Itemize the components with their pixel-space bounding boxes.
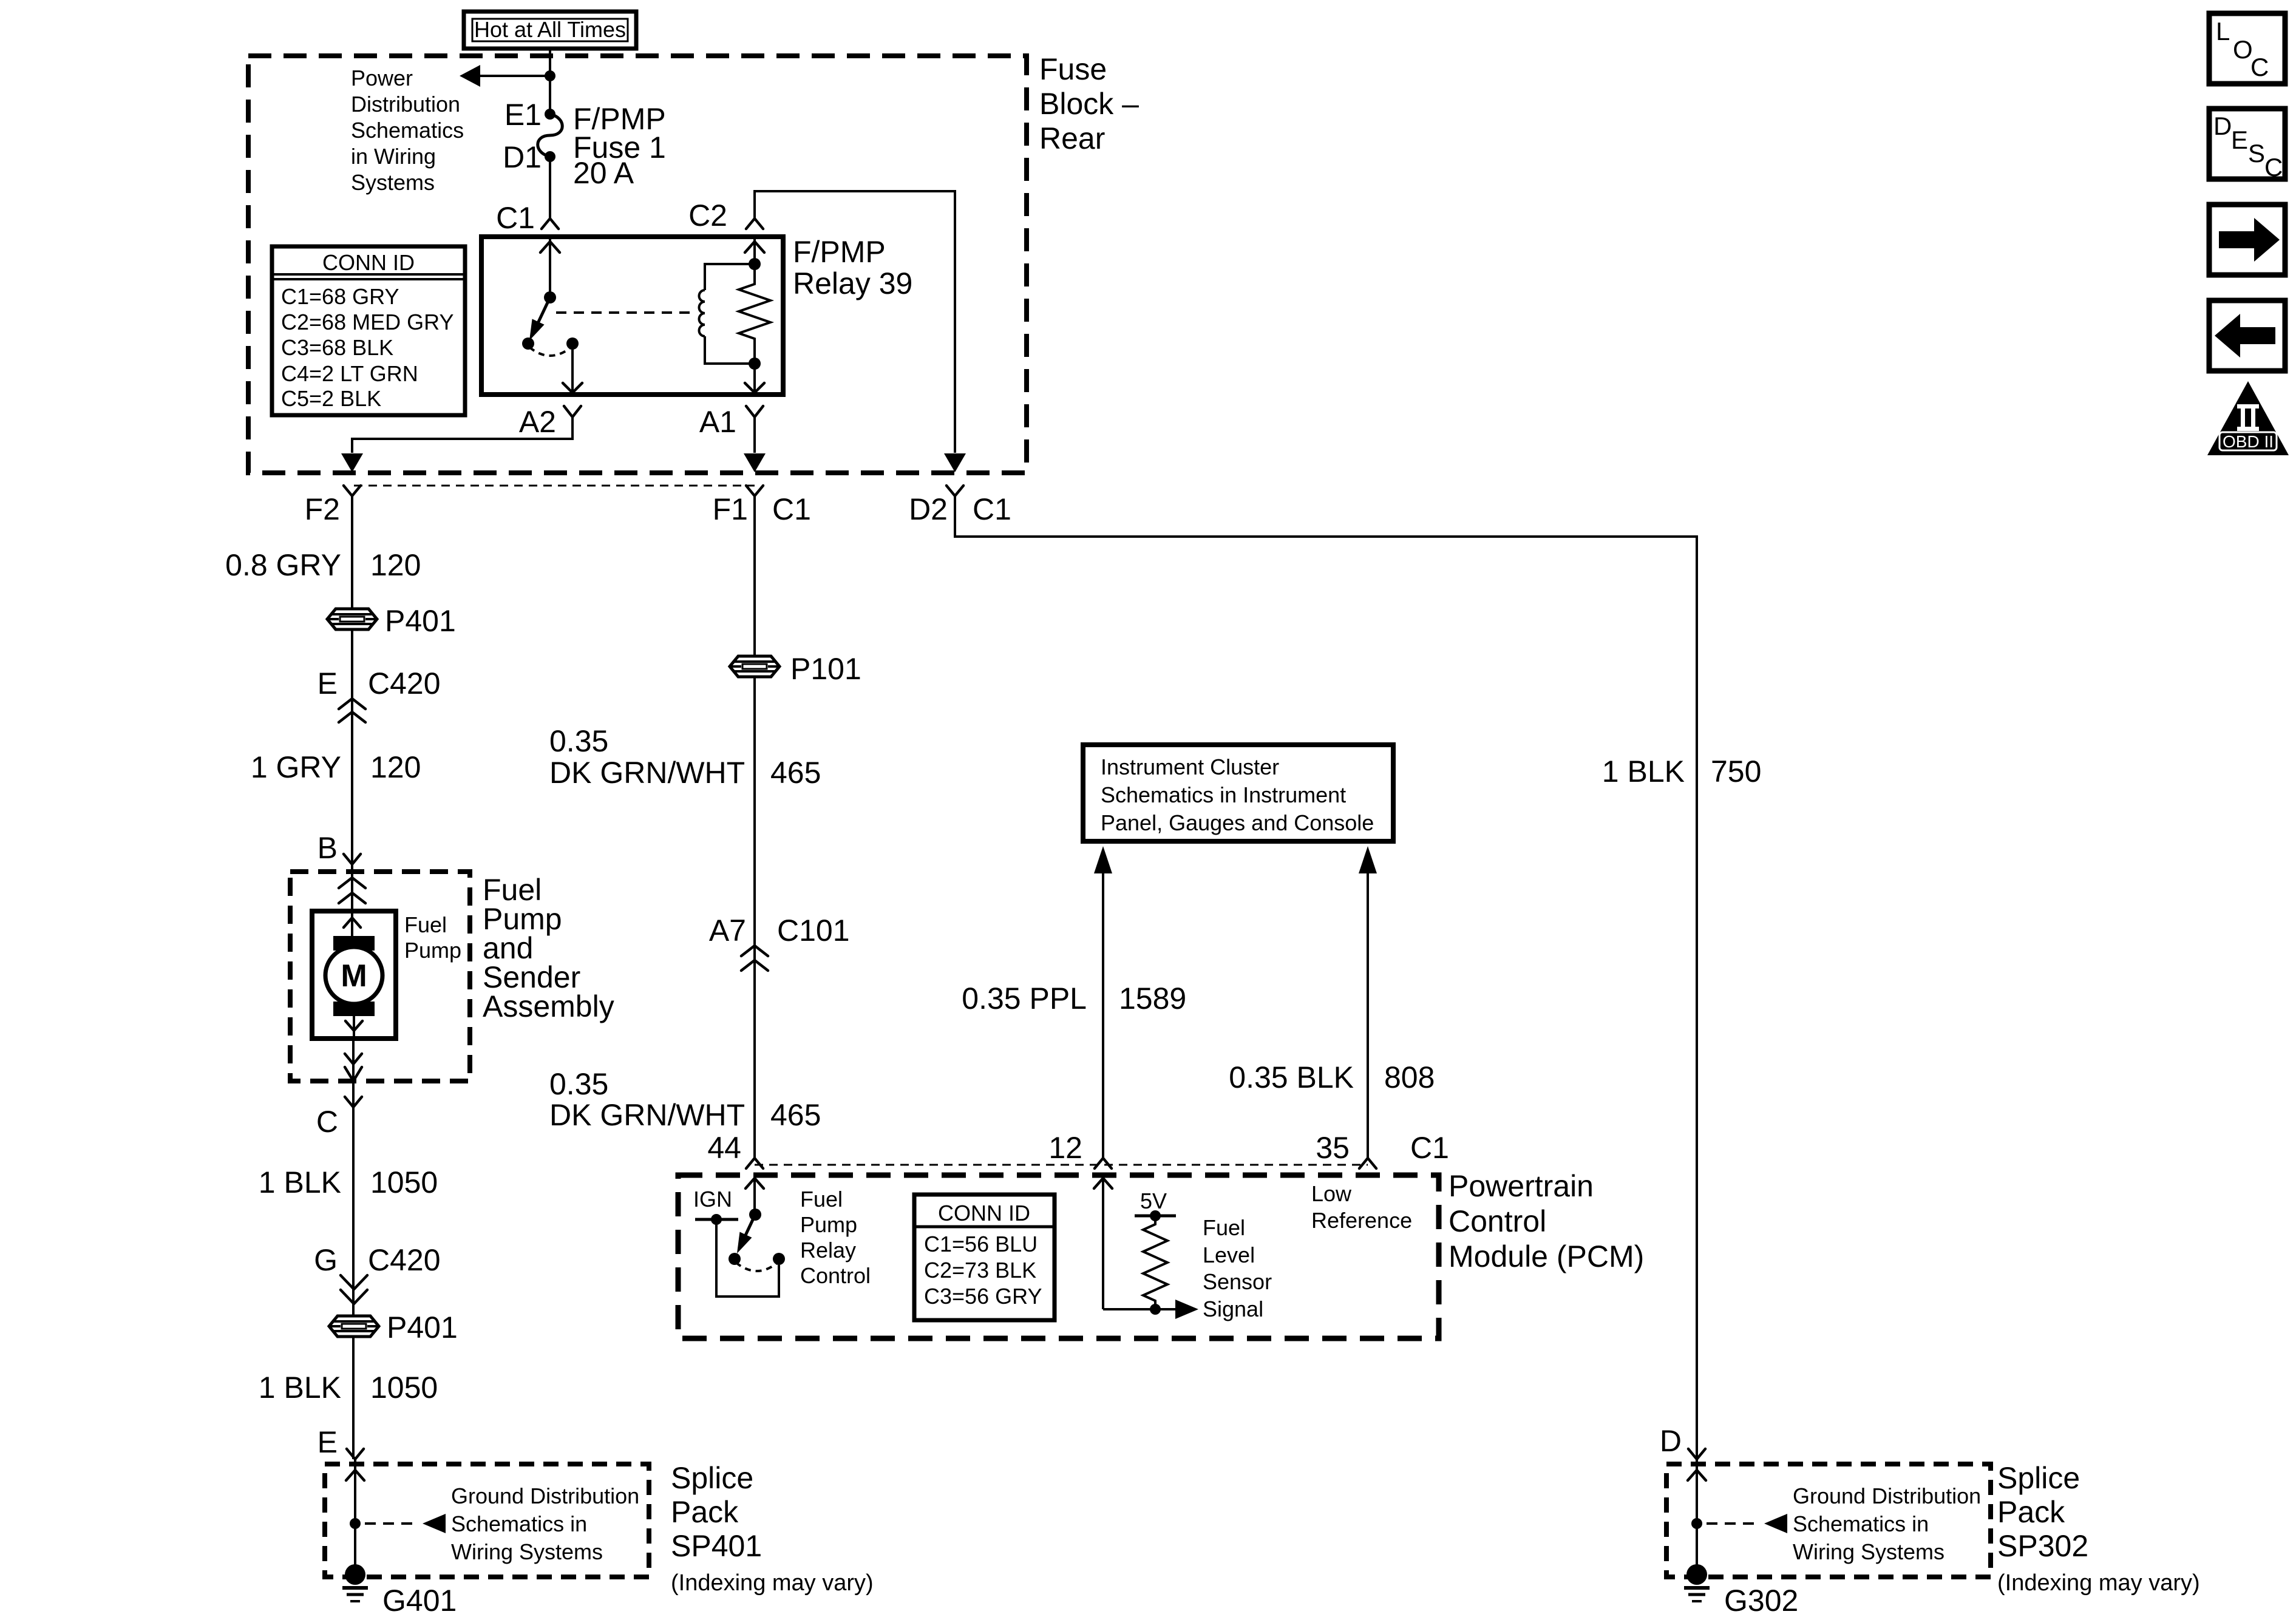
svg-text:P401: P401 (385, 604, 456, 638)
svg-text:C1=68 GRY: C1=68 GRY (281, 284, 399, 309)
svg-text:1 BLK: 1 BLK (1602, 754, 1685, 788)
svg-text:L: L (2216, 17, 2230, 46)
svg-text:Systems: Systems (351, 170, 435, 195)
svg-text:Reference: Reference (1311, 1208, 1412, 1233)
svg-text:Pack: Pack (1997, 1495, 2065, 1529)
svg-text:C1: C1 (1410, 1131, 1449, 1165)
svg-text:Pump: Pump (404, 938, 461, 963)
svg-text:1 BLK: 1 BLK (259, 1165, 341, 1199)
svg-text:1 GRY: 1 GRY (251, 750, 341, 784)
svg-text:1050: 1050 (370, 1165, 438, 1199)
svg-text:C1: C1 (496, 201, 535, 235)
svg-text:in Wiring: in Wiring (351, 144, 436, 169)
svg-text:C3=56 GRY: C3=56 GRY (924, 1284, 1042, 1309)
svg-text:Block –: Block – (1039, 87, 1139, 121)
svg-text:465: 465 (770, 1098, 821, 1132)
svg-text:DK GRN/WHT: DK GRN/WHT (549, 1098, 745, 1132)
svg-text:Powertrain: Powertrain (1449, 1169, 1594, 1203)
svg-text:C1: C1 (772, 492, 811, 526)
svg-text:12: 12 (1048, 1131, 1082, 1165)
svg-text:(Indexing may vary): (Indexing may vary) (671, 1570, 874, 1596)
svg-text:1050: 1050 (370, 1371, 438, 1405)
svg-text:Low: Low (1311, 1181, 1352, 1206)
svg-text:IGN: IGN (693, 1187, 732, 1212)
svg-text:M: M (341, 958, 367, 994)
svg-text:E: E (2231, 126, 2248, 154)
svg-text:Hot at All Times: Hot at All Times (474, 17, 626, 42)
svg-text:Module (PCM): Module (PCM) (1449, 1239, 1644, 1273)
svg-text:E1: E1 (504, 98, 542, 132)
svg-text:C1: C1 (973, 492, 1011, 526)
svg-text:Fuel: Fuel (404, 912, 447, 937)
svg-text:Level: Level (1203, 1242, 1255, 1267)
svg-text:Sensor: Sensor (1203, 1269, 1272, 1294)
svg-text:G401: G401 (382, 1584, 457, 1617)
svg-text:C1=56 BLU: C1=56 BLU (924, 1232, 1038, 1256)
svg-text:0.35 PPL: 0.35 PPL (962, 981, 1087, 1015)
svg-text:F2: F2 (305, 492, 340, 526)
svg-text:(Indexing may vary): (Indexing may vary) (1997, 1570, 2200, 1596)
svg-text:C5=2 BLK: C5=2 BLK (281, 386, 381, 411)
svg-text:120: 120 (370, 750, 421, 784)
svg-text:Distribution: Distribution (351, 92, 460, 117)
svg-text:465: 465 (770, 756, 821, 790)
svg-text:Assembly: Assembly (483, 989, 614, 1023)
svg-text:120: 120 (370, 548, 421, 582)
svg-text:E: E (318, 666, 338, 700)
svg-text:Relay 39: Relay 39 (793, 266, 912, 300)
svg-text:C: C (316, 1105, 338, 1139)
svg-text:B: B (318, 831, 338, 865)
svg-text:Splice: Splice (1997, 1461, 2080, 1495)
svg-text:5V: 5V (1140, 1188, 1167, 1213)
svg-text:C2=68 MED GRY: C2=68 MED GRY (281, 310, 453, 334)
svg-text:Control: Control (800, 1263, 871, 1288)
svg-text:808: 808 (1384, 1060, 1435, 1094)
svg-text:S: S (2248, 139, 2265, 168)
svg-text:0.8 GRY: 0.8 GRY (225, 548, 341, 582)
svg-text:0.35: 0.35 (549, 724, 608, 758)
svg-text:C2: C2 (688, 198, 727, 232)
svg-text:Panel, Gauges and Console: Panel, Gauges and Console (1101, 810, 1374, 835)
svg-text:DK GRN/WHT: DK GRN/WHT (549, 756, 745, 790)
svg-text:SP302: SP302 (1997, 1529, 2088, 1563)
svg-text:A2: A2 (519, 405, 556, 439)
svg-text:D: D (2213, 112, 2232, 140)
svg-text:D1: D1 (503, 140, 542, 174)
svg-text:C3=68 BLK: C3=68 BLK (281, 335, 393, 360)
svg-text:1 BLK: 1 BLK (259, 1371, 341, 1405)
svg-text:1589: 1589 (1119, 981, 1186, 1015)
svg-text:C420: C420 (368, 1243, 441, 1277)
svg-text:Schematics in Instrument: Schematics in Instrument (1101, 782, 1346, 807)
svg-text:20 A: 20 A (573, 156, 634, 190)
svg-text:A1: A1 (699, 405, 736, 439)
svg-text:Fuel: Fuel (1203, 1215, 1245, 1240)
svg-text:44: 44 (707, 1131, 741, 1165)
svg-text:Power: Power (351, 66, 413, 90)
svg-text:OBD II: OBD II (2223, 432, 2274, 451)
svg-text:Signal: Signal (1203, 1297, 1263, 1321)
svg-text:P101: P101 (790, 652, 861, 686)
svg-text:Control: Control (1449, 1204, 1546, 1238)
svg-text:G: G (314, 1243, 338, 1277)
svg-text:CONN ID: CONN ID (938, 1201, 1030, 1225)
svg-text:F1: F1 (713, 492, 748, 526)
svg-text:O: O (2233, 35, 2253, 64)
svg-text:Schematics: Schematics (351, 118, 464, 143)
svg-text:D: D (1660, 1424, 1682, 1458)
svg-text:Rear: Rear (1039, 121, 1105, 155)
svg-text:750: 750 (1711, 754, 1761, 788)
svg-text:Schematics in: Schematics in (451, 1511, 587, 1536)
svg-text:C4=2 LT GRN: C4=2 LT GRN (281, 361, 418, 386)
svg-text:E: E (318, 1425, 338, 1459)
svg-text:Ground Distribution: Ground Distribution (451, 1483, 639, 1508)
svg-text:Splice: Splice (671, 1461, 753, 1495)
svg-text:Wiring Systems: Wiring Systems (451, 1539, 603, 1564)
svg-text:35: 35 (1316, 1131, 1350, 1165)
svg-text:Pack: Pack (671, 1495, 739, 1529)
svg-text:C: C (2250, 53, 2269, 81)
svg-text:G302: G302 (1724, 1584, 1798, 1617)
svg-text:Instrument Cluster: Instrument Cluster (1101, 754, 1279, 779)
svg-text:P401: P401 (387, 1310, 458, 1344)
svg-text:C420: C420 (368, 666, 441, 700)
svg-text:C2=73 BLK: C2=73 BLK (924, 1258, 1036, 1283)
svg-text:C: C (2264, 153, 2283, 181)
svg-text:C101: C101 (777, 914, 850, 947)
svg-text:Fuse: Fuse (1039, 52, 1107, 86)
svg-text:0.35: 0.35 (549, 1067, 608, 1101)
svg-text:Relay: Relay (800, 1238, 856, 1263)
svg-text:D2: D2 (909, 492, 948, 526)
svg-text:SP401: SP401 (671, 1529, 762, 1563)
svg-text:F/PMP: F/PMP (793, 235, 886, 269)
svg-text:Pump: Pump (800, 1212, 857, 1237)
svg-text:0.35 BLK: 0.35 BLK (1229, 1060, 1354, 1094)
svg-text:A7: A7 (709, 914, 746, 947)
svg-text:CONN ID: CONN ID (322, 250, 415, 275)
svg-text:Fuel: Fuel (800, 1187, 843, 1212)
